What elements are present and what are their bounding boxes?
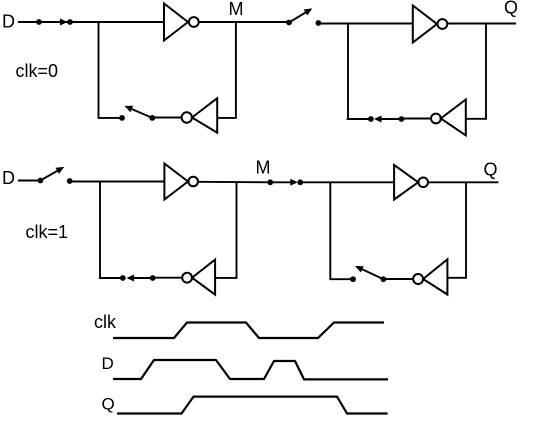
waveform clk (113, 323, 384, 339)
wire vertical branch latch2 left (row 1) (347, 24, 349, 120)
inverter U4 bubble (188, 177, 198, 187)
inverter U2 triangle (points left) (192, 98, 217, 133)
wire D input to inverter U1 (row 1) (18, 21, 164, 23)
switch S4 closed (latch2 feedback row1), contact dot left (368, 116, 374, 122)
svg-text:M: M (256, 158, 271, 178)
svg-text:Q: Q (504, 0, 518, 18)
wire vertical branch Q down to feedback (row 2) (465, 182, 467, 277)
inverter U3 bubble (438, 19, 448, 29)
wire U4 output to node M (row 2) (198, 181, 270, 184)
waveform D (113, 360, 388, 379)
switch S7 arrowhead pointing left (127, 275, 135, 282)
inverter U7 bubble (left-facing feedback) (182, 273, 192, 283)
wire U5 output to Q (row 2) (428, 181, 498, 183)
wire vertical branch latch1 left (row 1) (98, 22, 100, 118)
svg-text:D: D (2, 168, 15, 188)
switch S3 contact dot right (149, 115, 155, 121)
switch S1 arrowhead lever (60, 19, 68, 26)
inverter U6 triangle (points left) (441, 100, 466, 136)
inverter U8 triangle (points left) (423, 259, 447, 294)
wire latch1 feedback bottom left (row 1) (98, 117, 122, 119)
switch S3 lever from right dot (131, 109, 153, 118)
svg-text:clk=0: clk=0 (16, 61, 59, 81)
node M junction dot (row 2) (267, 179, 273, 185)
switch S8 arrowhead up-left (355, 266, 364, 273)
svg-text:clk=1: clk=1 (26, 222, 69, 242)
inverter U6 bubble (left-facing feedback) (431, 114, 441, 124)
switch S1 contact dot right (67, 19, 73, 25)
wire U8 input from Q vertical (row 2) (447, 277, 467, 279)
wire S8 to inverter U8 bubble (row 2) (383, 278, 413, 280)
inverter U7 triangle (points left) (192, 260, 215, 295)
wire vertical branch latch2 left (row 2) (329, 182, 331, 279)
wire D input to switch S5 (row 2) (18, 180, 40, 182)
wire U3 output to Q (row 1) (447, 23, 516, 25)
wire S5 to inverter U4 (row 2) (70, 181, 165, 183)
switch S4 arrowhead pointing left (374, 116, 382, 123)
inverter U5 triangle (394, 165, 418, 200)
waveform Q (117, 397, 388, 414)
switch S8 lever from right dot (361, 269, 383, 279)
wire vertical branch latch1 left (row 2) (99, 182, 101, 279)
wire U2 input from M vertical (row 1) (217, 117, 237, 119)
wire S2 to inverter U3 (row 1) (318, 23, 412, 25)
svg-text:Q: Q (484, 160, 498, 180)
switch S6 contact dot right (297, 179, 303, 185)
inverter U8 bubble (left-facing feedback) (413, 274, 423, 284)
inverter U4 triangle (164, 164, 188, 200)
switch S8 contact dot right (381, 276, 387, 282)
wire S3 to inverter U2 bubble (row 1) (152, 117, 181, 119)
svg-text:clk: clk (94, 312, 117, 332)
switch S3 arrowhead up-left (124, 106, 133, 113)
switch S2 open (clk=0 slave input), contact dot left (286, 20, 292, 26)
svg-text:D: D (102, 354, 114, 373)
wire U1 output to switch S2 (node M row 1) (199, 21, 289, 23)
svg-text:D: D (2, 12, 15, 32)
inverter U1 triangle (164, 4, 188, 41)
switch S5 open (clk=1 master input), contact dot left (38, 178, 44, 184)
wire S7 to inverter U7 bubble (row 2) (153, 277, 183, 279)
svg-text:M: M (229, 0, 244, 19)
wire latch2 feedback bottom left (row 1) (347, 118, 371, 120)
switch S6 closed (clk=1 slave input) lever (270, 181, 294, 183)
wire U6 input from Q vertical (row 1) (466, 118, 487, 120)
switch S5 lever open up-right (40, 170, 58, 180)
svg-text:Q: Q (102, 395, 115, 414)
switch S8 open (latch2 feedback row2), contact dot left (350, 276, 356, 282)
wire latch1 feedback bottom left (row 2) (99, 277, 123, 279)
inverter U3 triangle (413, 6, 437, 43)
switch S6 arrowhead (290, 179, 298, 186)
wire vertical branch Q down to feedback (row 1) (485, 24, 487, 119)
wire vertical branch M down to feedback (row 1) (235, 22, 237, 118)
inverter U5 bubble (418, 178, 428, 188)
switch S7 lever (131, 277, 153, 279)
switch S4 lever (379, 118, 401, 120)
switch S4 contact dot right (399, 116, 405, 122)
inverter U1 bubble (189, 17, 199, 27)
switch S2 lever open up-right (289, 12, 307, 23)
wire latch2 feedback bottom left (row 2) (329, 278, 353, 280)
switch S2 contact dot right (316, 20, 322, 26)
switch S1 closed (clk=0 master input), contact dot left (36, 19, 42, 25)
wire U7 input from vertical (row 2) (215, 277, 237, 279)
wire S6 to inverter U5 (row 2) (300, 181, 394, 183)
switch S7 contact dot right (150, 275, 156, 281)
wire vertical branch latch1 right (row 2) (236, 182, 238, 278)
switch S3 open (latch1 feedback row1), contact dot left (119, 115, 125, 121)
wire S4 to inverter U6 bubble (row 1) (401, 118, 431, 120)
switch S5 arrowhead (56, 167, 65, 174)
switch S7 closed (latch1 feedback row2), contact dot left (120, 275, 126, 281)
switch S5 contact dot right (67, 178, 73, 184)
inverter U2 bubble (left-facing feedback) (182, 112, 192, 122)
switch S2 arrowhead (304, 8, 313, 15)
